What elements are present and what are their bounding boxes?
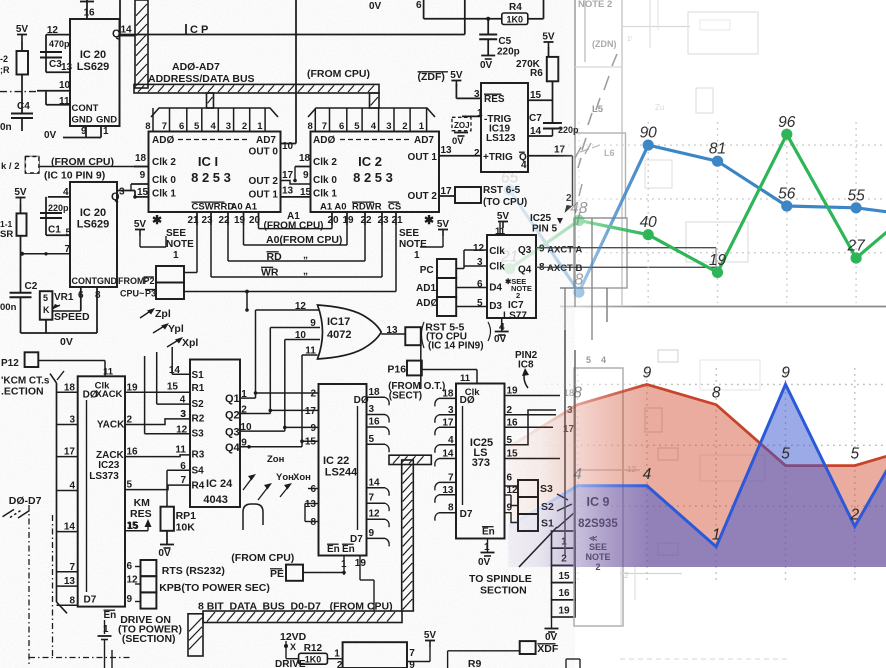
svg-text:20: 20 (327, 215, 339, 226)
wire AXCT B (536, 266, 716, 268)
svg-text:k / 2: k / 2 (1, 161, 20, 172)
pin 23 IC1 bottom (210, 212, 212, 225)
svg-text:Clk 2: Clk 2 (313, 157, 337, 168)
svg-text:8: 8 (95, 290, 101, 301)
wire A0 from CPU (243, 212, 245, 245)
svg-text:En: En (342, 544, 355, 555)
pin 8 IC1 top (152, 108, 154, 132)
pin 12 IC22 right (367, 518, 386, 520)
wire to XDF (448, 650, 520, 652)
svg-text:IC 22: IC 22 (323, 455, 349, 467)
bus vertical hatched top-left (135, 0, 148, 88)
pin 19 IC1 bottom (243, 212, 245, 225)
pin 22 IC1 bottom (227, 212, 229, 225)
svg-text:8: 8 (575, 272, 584, 289)
svg-text:DØ: DØ (460, 395, 475, 406)
connector XDF box (520, 641, 536, 654)
svg-text:15: 15 (137, 187, 149, 198)
pin 19 IC2 bottom (346, 212, 348, 225)
svg-text:PC: PC (420, 265, 434, 276)
svg-text:RTS (RS232): RTS (RS232) (162, 565, 225, 577)
signal arrows Zpl Ypl Xpl (140, 310, 152, 318)
svg-text:„: „ (303, 266, 308, 277)
svg-text:DØ: DØ (83, 390, 98, 401)
wires PC AD1 AD0 to IC7 (456, 268, 464, 270)
svg-text:2: 2 (310, 388, 316, 399)
svg-text:4: 4 (69, 481, 75, 492)
svg-text:15: 15 (305, 437, 317, 448)
IC box bottom middle (343, 642, 407, 668)
svg-text:0V: 0V (452, 136, 464, 147)
svg-text:8 2 5 3: 8 2 5 3 (353, 170, 393, 185)
svg-text:ADDRESS/DATA BUS: ADDRESS/DATA BUS (148, 73, 255, 85)
svg-text:En: En (104, 610, 117, 621)
pin 3 IC2 top (393, 108, 395, 132)
svg-text:5: 5 (194, 121, 200, 132)
svg-text:S2: S2 (192, 399, 205, 410)
svg-text:6: 6 (416, 0, 422, 11)
svg-text:0V: 0V (60, 336, 73, 348)
svg-text:2: 2 (516, 291, 520, 300)
svg-text:470p: 470p (49, 39, 70, 49)
wire CP rail top-left (119, 0, 121, 35)
wire second vertical below En (111, 650, 113, 668)
svg-text:5V: 5V (14, 187, 27, 198)
svg-text:AD7: AD7 (256, 135, 276, 146)
svg-text:En: En (327, 544, 340, 555)
wire YACK to IC24 R2 (125, 419, 190, 425)
wire IC17 pin12 from P3 line (246, 292, 248, 311)
svg-text:4: 4 (521, 160, 527, 171)
svg-text:2: 2 (402, 121, 407, 132)
svg-text:4072: 4072 (327, 329, 351, 341)
svg-text:4: 4 (211, 121, 217, 132)
svg-text:ADØ-AD7: ADØ-AD7 (172, 61, 220, 73)
pin 2 IC2 top (409, 108, 411, 132)
wires Q verticals up to IC17 (255, 310, 257, 398)
svg-text:2: 2 (849, 506, 859, 523)
svg-text:5: 5 (369, 434, 375, 445)
pin 1 IC2 top (426, 108, 428, 132)
svg-text:1: 1 (173, 250, 179, 261)
svg-text:Clk 0: Clk 0 (152, 175, 176, 186)
svg-text:R4: R4 (192, 481, 205, 492)
wire vertical 565 under chart (564, 330, 566, 555)
pin 4 IC23 left (57, 490, 78, 492)
svg-text:DØ-D7: DØ-D7 (9, 495, 42, 507)
svg-text:SEE: SEE (166, 228, 186, 239)
svg-text:18: 18 (135, 153, 147, 164)
point blue 2 (643, 140, 654, 151)
hatched bus stub top (389, 455, 431, 464)
svg-text:13: 13 (61, 62, 73, 73)
svg-text:0V: 0V (158, 548, 171, 559)
svg-text:Q4: Q4 (518, 265, 532, 276)
svg-text:En: En (482, 527, 495, 538)
svg-text:;R: ;R (0, 65, 10, 75)
svg-text:ADØ: ADØ (313, 135, 335, 146)
svg-text:10: 10 (59, 80, 71, 91)
capacitor C5 220p (487, 19, 489, 34)
svg-text:9: 9 (409, 660, 415, 668)
pin 20 IC2 bottom (331, 212, 333, 225)
svg-text:8 2 5 3: 8 2 5 3 (191, 170, 231, 185)
node RST5-5 box (405, 327, 421, 345)
node RST6-5 box (455, 187, 481, 203)
svg-text:S3: S3 (192, 429, 205, 440)
chart top gridlines (562, 144, 886, 146)
wire AXCT A (536, 247, 716, 249)
svg-text:RES: RES (484, 94, 505, 105)
svg-text:0V: 0V (494, 334, 507, 345)
svg-text:L6: L6 (604, 148, 615, 158)
pin 8 IC25 left (439, 512, 456, 514)
svg-text:+TRIG: +TRIG (483, 152, 513, 163)
svg-text:6: 6 (339, 121, 344, 132)
svg-text:0V: 0V (480, 60, 493, 71)
pin 21 IC2 bottom (395, 212, 397, 225)
series red line (508, 384, 886, 465)
svg-text:14: 14 (169, 365, 181, 376)
svg-text:X: X (290, 642, 296, 652)
faded 17 wire dashes (575, 147, 581, 158)
svg-text:(ZDN): (ZDN) (592, 39, 617, 49)
faded box mid lower (574, 218, 627, 288)
svg-text:1K0: 1K0 (305, 655, 322, 665)
svg-text:11: 11 (460, 373, 471, 384)
svg-text:YACK: YACK (97, 420, 125, 431)
svg-text:(FROM CPU): (FROM CPU) (307, 68, 370, 80)
wires IC25 right to S boxes and bus (505, 395, 561, 397)
pin 7 IC23 left (57, 571, 78, 573)
svg-text:2: 2 (624, 571, 629, 580)
faded diagonal dashes (612, 54, 617, 66)
svg-text:LS77: LS77 (503, 311, 527, 322)
svg-text:18: 18 (64, 382, 76, 393)
pin 8 IC2 top (314, 108, 316, 132)
svg-text:KPB(TO POWER SEC): KPB(TO POWER SEC) (159, 582, 270, 594)
svg-text:22: 22 (360, 215, 372, 226)
svg-text:OUT 2: OUT 2 (249, 176, 279, 187)
svg-text:5: 5 (477, 298, 483, 309)
pin 13 IC23 left (57, 585, 78, 587)
svg-text:6: 6 (477, 279, 483, 290)
series blue2 line (508, 384, 886, 546)
series blue line (510, 145, 886, 292)
svg-text:AD7: AD7 (414, 135, 434, 146)
pin 23 IC2 bottom (381, 212, 383, 225)
svg-text:OUT 1: OUT 1 (408, 152, 438, 163)
svg-text:C4: C4 (17, 101, 30, 112)
IC U-IC25 LS373 box (456, 384, 505, 539)
chart top x-axis (560, 306, 886, 308)
IC U-IC7 LS77 box (487, 235, 536, 318)
svg-text:0V: 0V (545, 632, 558, 643)
svg-text:3: 3 (180, 409, 186, 420)
wire loop right of IC24 (243, 504, 263, 530)
pin 7 IC1 top (169, 108, 171, 132)
svg-text:D3: D3 (489, 301, 502, 312)
svg-text:2: 2 (242, 121, 247, 132)
svg-text:6: 6 (180, 461, 186, 472)
svg-text:21: 21 (500, 248, 518, 265)
svg-text:C5: C5 (498, 36, 511, 47)
faded small boxes right of IC9 (658, 350, 678, 362)
svg-text:5V: 5V (424, 630, 437, 641)
svg-text:3: 3 (386, 121, 391, 132)
wires to IC22 inputs (256, 392, 319, 394)
white haze panel bottom chart (540, 330, 886, 567)
svg-text:8: 8 (712, 385, 721, 402)
point blue 5 (851, 202, 862, 213)
svg-text:7: 7 (322, 121, 327, 132)
svg-text:0V: 0V (478, 557, 491, 568)
svg-text:0V: 0V (44, 130, 57, 141)
pin column 0V (551, 617, 553, 628)
svg-text:9: 9 (310, 423, 316, 434)
pin 17 IC25 left (439, 426, 456, 428)
svg-text:LS123: LS123 (486, 133, 516, 144)
svg-text:Zpl: Zpl (155, 308, 171, 320)
svg-text:SEE: SEE (399, 228, 419, 239)
svg-text:9: 9 (140, 170, 146, 181)
svg-text:3: 3 (69, 415, 75, 426)
pin 3 IC22 right (367, 414, 386, 416)
connector pin column boxes 1 2 15 16 19 (552, 531, 576, 548)
svg-text:OUT 1: OUT 1 (249, 190, 279, 201)
svg-text:R2: R2 (192, 414, 205, 425)
connector RTS KPB boxes (141, 560, 157, 576)
wire pin5 to IC24 R4 (125, 485, 190, 490)
pin 3 IC1 top (233, 108, 235, 132)
faded below baseline fragments (620, 567, 622, 625)
svg-text:(SECT): (SECT) (389, 390, 422, 401)
svg-text:„: „ (303, 250, 308, 261)
svg-text:PE: PE (270, 568, 284, 580)
pin 4 IC2 top (378, 108, 380, 132)
svg-text:373: 373 (472, 457, 490, 469)
svg-text:CS: CS (388, 202, 401, 213)
svg-text:96: 96 (778, 114, 796, 131)
svg-text:10K: 10K (176, 522, 196, 534)
bus drop to IC1 (207, 93, 214, 108)
pin 7 IC25 left (439, 481, 456, 483)
svg-text:27: 27 (846, 238, 866, 255)
svg-text:1‌⁽: 1‌⁽ (627, 35, 633, 43)
svg-text:1: 1 (477, 108, 483, 119)
wire 0V rail (21, 332, 98, 334)
svg-text:IC I: IC I (198, 154, 218, 169)
svg-text:17: 17 (282, 170, 294, 181)
point green 2 (643, 229, 654, 240)
svg-text:AD1: AD1 (416, 283, 436, 294)
svg-text:19: 19 (342, 215, 354, 226)
svg-text:13: 13 (64, 576, 76, 587)
svg-text:(SECTION): (SECTION) (122, 633, 176, 645)
svg-text:13: 13 (441, 145, 453, 156)
wire WR (210, 212, 212, 277)
wire IC20a Q pin14 (120, 35, 136, 37)
faded bottom-chart zone schematic IC9 outline (574, 368, 623, 626)
svg-text:IC 2: IC 2 (358, 154, 382, 169)
pin 9 IC22 right (367, 537, 386, 539)
hatched bus vertical center (402, 460, 414, 611)
chart bottom gridlines (507, 368, 509, 584)
svg-text:4: 4 (573, 466, 582, 483)
svg-text:48: 48 (570, 200, 588, 217)
wire RD (227, 212, 229, 261)
svg-text:14: 14 (442, 449, 454, 460)
svg-text:A0(FROM CPU): A0(FROM CPU) (266, 234, 342, 246)
svg-text:3: 3 (369, 404, 375, 415)
pin 6 IC2 top (346, 108, 348, 132)
svg-text:00n: 00n (0, 302, 17, 313)
pin 5 IC2 top (361, 108, 363, 132)
wire dash-dot (0, 91, 37, 93)
svg-text:Clk 1: Clk 1 (152, 189, 176, 200)
svg-text:RD: RD (267, 251, 283, 263)
svg-text:14: 14 (369, 477, 381, 488)
svg-text:IC7: IC7 (508, 300, 524, 311)
svg-text:21: 21 (391, 215, 403, 226)
pin 17 IC23 left (57, 456, 78, 458)
svg-text:SPEED: SPEED (54, 311, 90, 323)
svg-text:✱: ✱ (152, 213, 162, 227)
svg-text:81: 81 (709, 141, 726, 158)
svg-text:(IC 14 PIN9): (IC 14 PIN9) (428, 341, 484, 352)
gate U-IC17 4072 (318, 305, 382, 359)
svg-text:11: 11 (175, 445, 186, 456)
svg-text:(FROM CPU): (FROM CPU) (264, 221, 324, 232)
svg-text:7: 7 (180, 475, 186, 486)
pin 14 IC25 left (439, 458, 456, 460)
svg-text:13: 13 (305, 499, 317, 510)
svg-text:7: 7 (448, 472, 454, 483)
svg-text:12: 12 (176, 425, 188, 436)
pin 18 IC22 right (367, 396, 386, 398)
pin 22 IC2 bottom (364, 212, 366, 225)
svg-text:2: 2 (474, 148, 480, 159)
IC U-IC23 LS373 box (78, 376, 125, 606)
ground C5 (481, 55, 495, 57)
wire OUT0 up (281, 143, 297, 145)
svg-text:1: 1 (414, 250, 420, 261)
svg-text:12: 12 (473, 243, 485, 254)
svg-text:7: 7 (69, 562, 75, 573)
svg-text:R12: R12 (304, 643, 323, 654)
faded boxes right (688, 12, 758, 54)
svg-text:R9: R9 (468, 658, 482, 668)
pin 14 IC23 left (57, 531, 78, 533)
svg-text:(ZDF): (ZDF) (418, 71, 445, 83)
bus D0-D7 left vertical (56, 383, 58, 602)
svg-text:LS373: LS373 (89, 471, 119, 482)
svg-text:Q4: Q4 (225, 442, 241, 454)
svg-text:LS629: LS629 (77, 219, 109, 231)
svg-text:1: 1 (103, 126, 109, 137)
svg-text:WR: WR (261, 267, 279, 279)
svg-text:9: 9 (781, 364, 790, 381)
white haze panel top chart (556, 0, 886, 308)
svg-text:Clk 2: Clk 2 (152, 157, 176, 168)
svg-text:VR1: VR1 (54, 292, 74, 303)
wire XACK to IC24 R1 (125, 391, 190, 393)
wire RST box down (420, 345, 422, 389)
svg-text:4043: 4043 (203, 494, 227, 506)
point blue 1 (573, 287, 584, 298)
svg-text:A1 A0: A1 A0 (320, 202, 347, 213)
pin 3 IC23 left (57, 424, 78, 426)
svg-text:8: 8 (310, 517, 316, 528)
IC U-IC1 8253 box (149, 132, 281, 213)
svg-text:19: 19 (558, 605, 570, 616)
svg-text:13: 13 (282, 186, 294, 197)
svg-text:RES: RES (130, 508, 152, 520)
svg-text:4: 4 (601, 355, 606, 365)
svg-text:5V: 5V (16, 24, 29, 35)
svg-text:.ECTION: .ECTION (1, 386, 44, 398)
wires IC23 to RTS KPB boxes (135, 566, 141, 568)
boundary dash-dot verticals (28, 505, 30, 665)
svg-text:GND: GND (97, 276, 118, 286)
svg-text:SECTION: SECTION (480, 585, 527, 597)
pin 20 IC1 bottom (258, 212, 260, 225)
svg-text:LS244: LS244 (325, 467, 358, 479)
svg-text:18: 18 (442, 388, 454, 399)
wires Zpl Ypl Xpl verticals to IC24 (144, 356, 146, 434)
series red area (508, 384, 886, 567)
svg-text:4: 4 (448, 435, 454, 446)
svg-text:C P: C P (190, 24, 208, 36)
svg-text:15: 15 (558, 571, 570, 582)
svg-text:4: 4 (180, 395, 186, 406)
svg-text:6: 6 (127, 561, 133, 572)
hatched bus bottom bar (203, 611, 402, 623)
svg-text:OUT 0: OUT 0 (249, 147, 279, 158)
svg-text:4: 4 (371, 121, 377, 132)
svg-text:3: 3 (226, 121, 231, 132)
series green line (510, 134, 886, 272)
svg-text:L5: L5 (592, 104, 604, 115)
wire AXCT vertical (715, 248, 717, 268)
svg-text:16: 16 (83, 8, 95, 19)
svg-text:IC23: IC23 (98, 460, 120, 471)
svg-text:5: 5 (586, 355, 591, 365)
wire A1 from CPU (258, 212, 260, 229)
point green 1 (573, 215, 584, 226)
point blue 4 (781, 200, 792, 211)
svg-text:7: 7 (409, 648, 415, 659)
IC U-IC2 8253 box (311, 132, 440, 213)
IC19 Q output wire 17 (528, 155, 573, 157)
pin 4 IC25 left (439, 444, 456, 446)
svg-text:CPU~: CPU~ (120, 289, 144, 299)
svg-text:OUT 2: OUT 2 (408, 191, 438, 202)
pin 5 IC1 top (201, 108, 203, 132)
svg-text:5V: 5V (134, 219, 147, 230)
svg-text:R3: R3 (192, 450, 205, 461)
faded gap fragments (564, 288, 566, 330)
hatched bus left downturn (188, 614, 203, 656)
svg-text:P16: P16 (387, 364, 406, 376)
svg-text:-2: -2 (0, 54, 8, 64)
svg-text:NOTE: NOTE (399, 239, 427, 250)
svg-text:IC17: IC17 (327, 316, 350, 328)
svg-text:3: 3 (448, 405, 454, 416)
svg-text:5: 5 (781, 446, 790, 463)
svg-text:1: 1 (419, 121, 425, 132)
svg-text:XDF: XDF (537, 643, 559, 655)
